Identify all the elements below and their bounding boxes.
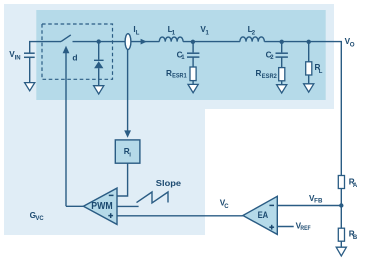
capacitor CIN xyxy=(24,53,35,57)
svg-text:FB: FB xyxy=(314,199,323,205)
current sense box Ri xyxy=(115,140,140,163)
node RL xyxy=(307,40,311,44)
svg-text:ESR2: ESR2 xyxy=(262,74,278,80)
svg-text:PWM: PWM xyxy=(91,201,112,212)
svg-text:R: R xyxy=(256,69,262,78)
label C1 xyxy=(177,50,186,61)
svg-text:IN: IN xyxy=(15,56,21,62)
label VREF xyxy=(296,221,311,232)
dashed switch-cell box xyxy=(42,24,113,79)
PWM minus sign xyxy=(109,194,114,196)
label RL xyxy=(315,63,323,75)
svg-text:C: C xyxy=(224,204,229,210)
ground RB xyxy=(336,247,346,256)
ground diode xyxy=(94,86,104,94)
svg-text:O: O xyxy=(350,42,355,49)
wire VO down to RA xyxy=(340,42,342,176)
svg-text:EA: EA xyxy=(258,210,269,220)
svg-text:Slope: Slope xyxy=(156,178,182,188)
ground RL xyxy=(304,84,314,92)
resistor RESR2 xyxy=(279,68,285,81)
label VO xyxy=(345,37,355,49)
svg-text:A: A xyxy=(353,183,358,189)
label GVC xyxy=(30,211,45,222)
wire RL to ground xyxy=(308,75,310,84)
wire RA to VFB node xyxy=(340,189,342,229)
label RB xyxy=(349,230,358,242)
op-amp EA xyxy=(243,196,277,234)
resistor RB xyxy=(338,228,344,241)
label RA xyxy=(349,178,358,190)
label RESR1 xyxy=(166,69,187,80)
wire node to RL xyxy=(308,42,310,62)
wire RESR1 to ground xyxy=(192,81,194,85)
wire EA noninverting input to VREF xyxy=(277,226,293,228)
label VC xyxy=(220,199,230,210)
capacitor C2 xyxy=(276,42,288,68)
svg-text:L: L xyxy=(319,69,323,75)
label Ri xyxy=(124,147,132,159)
label VIN xyxy=(9,50,20,62)
wire PWM output to switch control xyxy=(66,205,83,207)
resistor RA xyxy=(338,176,344,189)
wire slope ramp to PWM xyxy=(117,205,139,207)
inductor L2 xyxy=(240,37,264,42)
label V1 xyxy=(200,25,209,37)
label C2 xyxy=(266,50,275,61)
duty-cycle control wire with arrow (d) xyxy=(63,46,70,207)
ground RESR2 xyxy=(277,85,287,93)
label RESR2 xyxy=(256,69,278,80)
wire current probe down to Ri with arrow xyxy=(124,50,131,138)
label L2 xyxy=(248,25,256,37)
node diode junction xyxy=(97,39,101,43)
ground RESR1 xyxy=(188,84,198,92)
label IL xyxy=(133,25,139,37)
svg-text:d: d xyxy=(72,52,77,62)
comparator PWM xyxy=(83,188,117,224)
wire L2 to VO corner xyxy=(264,41,342,43)
capacitor C1 xyxy=(187,42,199,67)
slope-compensation sawtooth xyxy=(137,192,169,203)
wire CIN top to switch xyxy=(30,42,61,54)
svg-text:R: R xyxy=(166,69,172,78)
svg-text:REF: REF xyxy=(300,226,310,232)
resistor RL xyxy=(306,62,312,75)
node C2 xyxy=(280,40,284,44)
EA minus sign xyxy=(269,204,274,206)
resistor RESR1 xyxy=(190,67,196,81)
svg-text:VC: VC xyxy=(36,216,45,222)
switch blade xyxy=(61,35,71,42)
wire switch to probe xyxy=(73,41,126,43)
label VFB xyxy=(309,194,323,205)
wire Ri to PWM inverting input xyxy=(117,163,128,196)
wire VFB to EA inverting input xyxy=(277,205,341,207)
wire RESR2 to ground xyxy=(281,81,283,85)
node VFB xyxy=(339,203,343,207)
svg-text:B: B xyxy=(353,235,358,241)
inductor L1 xyxy=(159,37,183,42)
ground CIN xyxy=(25,83,35,91)
wire RB to ground xyxy=(340,241,342,247)
wire EA output to PWM noninverting input (VC) xyxy=(117,215,243,217)
diode D1 xyxy=(94,42,104,86)
wire L1 to L2 xyxy=(183,41,240,43)
EA plus sign xyxy=(269,225,274,230)
wire probe to L1 with arrow xyxy=(131,39,159,45)
current probe ellipse xyxy=(125,34,131,50)
wire CIN bottom xyxy=(29,57,31,82)
svg-text:ESR1: ESR1 xyxy=(172,74,187,80)
label L1 xyxy=(168,25,176,37)
PWM plus sign xyxy=(108,213,113,218)
node V1 xyxy=(191,40,195,44)
svg-text:L: L xyxy=(136,31,140,37)
